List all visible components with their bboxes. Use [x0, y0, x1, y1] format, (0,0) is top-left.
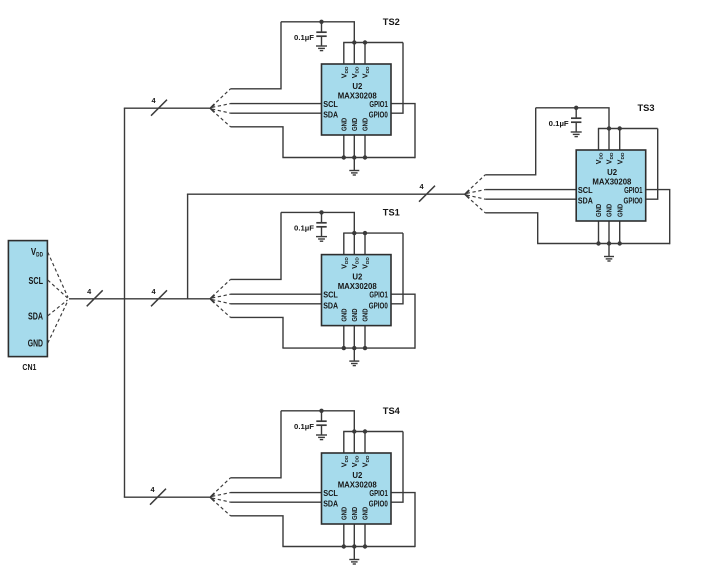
- pin label SDA (TS4): [323, 500, 338, 509]
- wire bus branch to TS2: [124, 107, 210, 109]
- svg-text:SDA: SDA: [28, 311, 43, 322]
- pin label VDD 2 (TS2): [350, 66, 361, 78]
- pin label VDD 3 (TS2): [361, 66, 372, 78]
- svg-text:0.1µF: 0.1µF: [294, 422, 314, 431]
- wire TS3 VDD pin 2: [608, 129, 610, 151]
- wire TS1 GND pin 3: [364, 326, 366, 349]
- svg-text:0.1µF: 0.1µF: [294, 224, 314, 233]
- wire TS3 GPIO1 to GND rail: [646, 190, 670, 245]
- svg-text:MAX30208: MAX30208: [592, 177, 631, 187]
- wire TS2 VDD rail: [343, 42, 403, 44]
- ground (TS1): [349, 348, 359, 366]
- wire TS3 VDD pin 1: [598, 129, 600, 151]
- dashed fan wire TS3 VDD: [467, 175, 486, 192]
- junction dot TS3 GND rail pin 2: [607, 241, 611, 245]
- dashed fan wire CN1 VDD: [48, 252, 68, 297]
- sensor designator label TS4: [383, 406, 401, 417]
- pin label GPIO0 (TS3): [624, 197, 643, 206]
- svg-text:0.1µF: 0.1µF: [549, 119, 569, 128]
- dashed fan wire TS3 SDA: [467, 195, 486, 199]
- junction dot TS1 GND rail pin 1: [342, 346, 346, 350]
- svg-text:GND: GND: [350, 506, 359, 520]
- pin label GPIO0 (TS2): [369, 111, 388, 120]
- wire bus branch to TS3: [187, 193, 465, 195]
- node TS4 bus fan-out point: [210, 493, 214, 501]
- wire TS4 VDD pin 1: [343, 432, 345, 454]
- wire TS3 VDD pin 3: [619, 129, 621, 151]
- sensor designator label TS2: [383, 17, 400, 28]
- ground (capacitor TS1): [316, 237, 327, 242]
- wire TS3 GND pin 1: [598, 221, 600, 244]
- junction dot TS2 GND rail pin 3: [363, 155, 367, 159]
- wire TS4 GND pin 3: [364, 524, 366, 547]
- svg-text:GND: GND: [28, 338, 43, 349]
- wire TS2 GND feed: [231, 127, 284, 158]
- wire bus branch to TS4: [124, 496, 210, 498]
- svg-text:CN1: CN1: [22, 362, 36, 372]
- sensor designator label TS1: [383, 208, 401, 219]
- pin label SDA (CN1): [28, 311, 43, 322]
- wire TS2 VDD pin 3: [364, 43, 366, 65]
- capacitor 0.1uF (TS3): [571, 108, 581, 132]
- wire TS3 VDD feed: [485, 108, 536, 175]
- wire TS2 GND pin 1: [343, 135, 345, 158]
- svg-text:GPIO0: GPIO0: [369, 301, 388, 310]
- bus width label 4 (TS3 branch): [419, 182, 424, 191]
- wire TS4 SDA: [231, 501, 322, 503]
- svg-text:TS3: TS3: [638, 103, 655, 114]
- wire TS3 SDA: [485, 198, 576, 200]
- svg-text:SDA: SDA: [323, 500, 338, 509]
- svg-text:GND: GND: [340, 308, 349, 322]
- bus-width slash TS2 branch: [151, 100, 167, 116]
- dashed fan wire CN1 GND: [48, 301, 68, 344]
- svg-text:GPIO0: GPIO0: [369, 111, 388, 120]
- capacitor 0.1uF (TS4): [316, 411, 326, 435]
- node TS3 bus fan-out point: [465, 190, 469, 198]
- wire TS4 VDD to GPIO0: [391, 432, 403, 503]
- pin label VDD 2 (TS4): [350, 455, 361, 467]
- bus width label 4 (TS4 branch): [150, 485, 155, 494]
- svg-text:GPIO1: GPIO1: [369, 100, 388, 109]
- dashed fan wire CN1 SDA: [48, 300, 68, 316]
- pin label SCL (TS1): [323, 291, 338, 300]
- wire TS3 GND feed: [485, 213, 538, 244]
- pin label GND 2 (TS2): [350, 117, 359, 131]
- wire TS4 GND feed: [231, 516, 284, 547]
- dashed fan wire TS1 VDD: [212, 279, 231, 296]
- junction dot TS3 VDD rail pin 2: [607, 126, 611, 130]
- svg-text:GND: GND: [594, 203, 603, 217]
- svg-text:4: 4: [87, 287, 92, 296]
- junction dot TS3 GND rail pin 1: [596, 241, 600, 245]
- junction dot TS1 VDD rail pin 2: [352, 231, 356, 235]
- pin label GND 2 (TS4): [350, 506, 359, 520]
- dashed fan wire TS2 SCL: [212, 104, 231, 108]
- junction dot TS4 GND rail pin 1: [342, 544, 346, 548]
- pin label VDD 1 (TS4): [339, 455, 350, 467]
- junction dot TS2 GND rail pin 2: [352, 155, 356, 159]
- dashed fan wire CN1 SCL: [48, 280, 68, 298]
- junction dot TS4 VDD rail pin 3: [363, 429, 367, 433]
- wire TS1 VDD rail: [343, 232, 403, 234]
- svg-text:GND: GND: [361, 506, 370, 520]
- connector CN1: [8, 241, 47, 357]
- sensor designator label TS3: [638, 103, 655, 114]
- wire TS2 GND pin 3: [364, 135, 366, 158]
- svg-text:4: 4: [151, 287, 156, 296]
- pin label VDD 1 (TS2): [339, 66, 350, 78]
- ground (capacitor TS3): [571, 132, 582, 137]
- svg-text:GND: GND: [361, 308, 370, 322]
- wire TS2 SCL: [231, 103, 322, 105]
- wire TS2 VDD pin 2: [353, 43, 355, 65]
- wire vertical bus TS2 to TS4: [124, 108, 126, 497]
- ground (capacitor TS4): [316, 435, 327, 440]
- refdes label U2 (TS2): [352, 81, 362, 91]
- wire TS1 GND feed: [231, 317, 284, 348]
- wire TS4 GPIO1 to GND rail: [391, 493, 415, 547]
- wire TS2 GPIO1 to GND rail: [391, 104, 415, 159]
- svg-text:SCL: SCL: [29, 276, 44, 287]
- wire TS1 VDD to GPIO0: [391, 233, 403, 304]
- wire TS3 GND pin 3: [619, 221, 621, 244]
- part label MAX30208 (TS4): [338, 480, 377, 490]
- wire TS4 GND pin 1: [343, 524, 345, 547]
- junction dot TS4 GND rail pin 2: [352, 544, 356, 548]
- pin label GND 2 (TS3): [605, 203, 614, 217]
- dashed fan wire TS4 VDD: [212, 478, 231, 495]
- wire TS3 SCL: [485, 189, 576, 191]
- pin label GPIO1 (TS3): [624, 186, 643, 195]
- svg-text:MAX30208: MAX30208: [338, 281, 377, 291]
- dashed fan wire TS4 GND: [212, 499, 231, 516]
- connector designator label CN1: [22, 362, 36, 372]
- node TS2 bus fan-out point: [210, 104, 214, 112]
- junction dot TS1 VDD rail pin 3: [363, 231, 367, 235]
- pin label GND 1 (TS2): [340, 117, 349, 131]
- pin label GPIO1 (TS4): [369, 489, 388, 498]
- svg-text:GND: GND: [340, 117, 349, 131]
- refdes label U2 (TS4): [352, 470, 362, 480]
- ground (TS4): [349, 547, 359, 565]
- capacitor 0.1uF (TS2): [316, 22, 326, 46]
- bus width label 4 (CN1 bus): [87, 287, 92, 296]
- svg-text:4: 4: [151, 96, 156, 105]
- wire TS1 GND pin 2: [353, 326, 355, 349]
- wire TS2 GND rail: [282, 157, 415, 159]
- svg-text:SCL: SCL: [578, 186, 593, 195]
- wire TS2 VDD to GPIO0: [391, 43, 403, 114]
- wire TS1 VDD cap rail: [281, 212, 354, 233]
- svg-text:GND: GND: [615, 203, 624, 217]
- junction dot TS4 GND rail pin 3: [363, 544, 367, 548]
- junction dot TS2 VDD rail pin 3: [363, 40, 367, 44]
- wire TS4 SCL: [231, 492, 322, 494]
- svg-text:GND: GND: [340, 506, 349, 520]
- pin label GND 3 (TS3): [615, 203, 624, 217]
- capacitor value label 0.1uF (TS4): [294, 422, 314, 431]
- pin label GPIO1 (TS1): [369, 291, 388, 300]
- svg-text:0.1µF: 0.1µF: [294, 33, 314, 42]
- node TS1 bus fan-out point: [210, 295, 214, 303]
- pin label VDD 1 (TS1): [339, 257, 350, 269]
- wire TS1 VDD pin 3: [364, 233, 366, 255]
- dashed fan wire TS1 SDA: [212, 300, 231, 304]
- svg-text:SDA: SDA: [323, 301, 338, 310]
- wire TS2 SDA: [231, 112, 322, 114]
- wire TS4 VDD cap rail: [281, 411, 354, 432]
- bus-width slash TS4 branch: [150, 489, 166, 505]
- wire TS4 GND rail: [282, 546, 415, 548]
- svg-text:TS2: TS2: [383, 17, 400, 28]
- dashed fan wire TS3 GND: [467, 196, 486, 213]
- junction dot TS2 VDD rail pin 2: [352, 40, 356, 44]
- junction dot TS2 cap to VDD rail: [319, 20, 323, 24]
- wire TS1 VDD pin 2: [353, 233, 355, 255]
- svg-text:TS4: TS4: [383, 406, 401, 417]
- dashed fan wire TS4 SCL: [212, 493, 231, 497]
- pin label SCL (CN1): [29, 276, 44, 287]
- ground (TS3): [604, 244, 614, 262]
- wire TS1 GND rail: [282, 347, 415, 349]
- dashed fan wire TS2 GND: [212, 110, 231, 127]
- pin label VDD 2 (TS3): [605, 152, 616, 164]
- svg-text:SDA: SDA: [323, 111, 338, 120]
- bus-width slash TS3 branch: [419, 186, 435, 202]
- wire TS4 VDD pin 3: [364, 432, 366, 454]
- pin label SCL (TS4): [323, 489, 338, 498]
- svg-text:GPIO1: GPIO1: [624, 186, 643, 195]
- svg-text:MAX30208: MAX30208: [338, 91, 377, 101]
- junction dot TS2 GND rail pin 1: [342, 155, 346, 159]
- pin label GND (CN1): [28, 338, 43, 349]
- capacitor 0.1uF (TS1): [316, 212, 326, 236]
- bus-width slash TS1 branch: [151, 290, 167, 306]
- capacitor value label 0.1uF (TS2): [294, 33, 314, 42]
- svg-text:GND: GND: [350, 308, 359, 322]
- svg-text:TS1: TS1: [383, 208, 401, 219]
- svg-text:SCL: SCL: [323, 100, 338, 109]
- part label MAX30208 (TS1): [338, 281, 377, 291]
- ground (TS2): [349, 158, 359, 176]
- junction dot TS3 cap to VDD rail: [574, 106, 578, 110]
- wire TS1 GND pin 1: [343, 326, 345, 349]
- part label MAX30208 (TS3): [592, 177, 631, 187]
- svg-text:SCL: SCL: [323, 489, 338, 498]
- bus width label 4 (TS2 branch): [151, 96, 156, 105]
- ground (capacitor TS2): [316, 46, 327, 51]
- wire TS4 VDD feed: [231, 411, 282, 478]
- pin label GND 1 (TS3): [594, 203, 603, 217]
- refdes label U2 (TS3): [607, 167, 617, 177]
- wire TS4 VDD pin 2: [353, 432, 355, 454]
- pin label SDA (TS3): [578, 197, 593, 206]
- junction dot TS4 VDD rail pin 2: [352, 429, 356, 433]
- svg-text:MAX30208: MAX30208: [338, 480, 377, 490]
- wire TS1 SDA: [231, 303, 322, 305]
- svg-text:GND: GND: [350, 117, 359, 131]
- bus width label 4 (TS1 branch): [151, 287, 156, 296]
- pin label VDD 3 (TS3): [615, 152, 626, 164]
- dashed fan wire TS1 SCL: [212, 294, 231, 298]
- pin label GND 1 (TS4): [340, 506, 349, 520]
- capacitor value label 0.1uF (TS1): [294, 224, 314, 233]
- wire TS2 VDD feed: [231, 22, 282, 89]
- wire main I2C bus CN1 to TS1 fan: [69, 298, 210, 300]
- wire TS1 VDD pin 1: [343, 233, 345, 255]
- svg-text:GND: GND: [605, 203, 614, 217]
- pin label VDD 2 (TS1): [350, 257, 361, 269]
- pin label GPIO0 (TS1): [369, 301, 388, 310]
- part label MAX30208 (TS2): [338, 91, 377, 101]
- wire TS2 GND pin 2: [353, 135, 355, 158]
- pin label VDD 3 (TS1): [361, 257, 372, 269]
- dashed fan wire TS4 SDA: [212, 498, 231, 502]
- pin label GPIO0 (TS4): [369, 500, 388, 509]
- refdes label U2 (TS1): [352, 272, 362, 282]
- capacitor value label 0.1uF (TS3): [549, 119, 569, 128]
- wire TS1 VDD feed: [231, 212, 282, 279]
- junction dot TS3 VDD rail pin 3: [618, 126, 622, 130]
- junction dot TS1 GND rail pin 3: [363, 346, 367, 350]
- svg-text:GND: GND: [361, 117, 370, 131]
- wire TS3 VDD rail: [598, 128, 658, 130]
- svg-text:SDA: SDA: [578, 197, 593, 206]
- junction dot TS4 cap to VDD rail: [319, 409, 323, 413]
- pin label VDD (CN1): [31, 246, 43, 259]
- pin label GPIO1 (TS2): [369, 100, 388, 109]
- bus-width slash CN1 bus: [87, 290, 103, 306]
- wire TS3 GND pin 2: [608, 221, 610, 244]
- svg-text:4: 4: [150, 485, 155, 494]
- pin label VDD 3 (TS4): [361, 455, 372, 467]
- pin label GND 3 (TS1): [361, 308, 370, 322]
- pin label VDD 1 (TS3): [594, 152, 605, 164]
- junction dot TS1 cap to VDD rail: [319, 210, 323, 214]
- pin label SCL (TS3): [578, 186, 593, 195]
- IC U2 MAX30208 (TS2): [322, 64, 392, 135]
- dashed fan wire TS2 SDA: [212, 109, 231, 113]
- wire TS1 SCL: [231, 293, 322, 295]
- svg-text:SCL: SCL: [323, 291, 338, 300]
- wire TS1 GPIO1 to GND rail: [391, 294, 415, 349]
- wire TS3 GND rail: [537, 243, 670, 245]
- svg-text:GPIO1: GPIO1: [369, 489, 388, 498]
- svg-text:GPIO0: GPIO0: [369, 500, 388, 509]
- IC U2 MAX30208 (TS4): [322, 453, 392, 524]
- pin label GND 1 (TS1): [340, 308, 349, 322]
- IC U2 MAX30208 (TS3): [576, 150, 646, 221]
- wire TS4 VDD rail: [343, 431, 403, 433]
- dashed fan wire TS1 GND: [212, 301, 231, 318]
- pin label GND 3 (TS4): [361, 506, 370, 520]
- pin label SDA (TS1): [323, 301, 338, 310]
- svg-text:4: 4: [419, 182, 424, 191]
- dashed fan wire TS3 SCL: [467, 190, 486, 194]
- svg-text:GPIO0: GPIO0: [624, 197, 643, 206]
- junction dot TS3 GND rail pin 3: [618, 241, 622, 245]
- IC U2 MAX30208 (TS1): [322, 255, 392, 326]
- svg-text:GPIO1: GPIO1: [369, 291, 388, 300]
- pin label SDA (TS2): [323, 111, 338, 120]
- wire TS2 VDD pin 1: [343, 43, 345, 65]
- junction dot TS1 GND rail pin 2: [352, 346, 356, 350]
- wire TS2 VDD cap rail: [281, 22, 354, 43]
- pin label GND 3 (TS2): [361, 117, 370, 131]
- pin label SCL (TS2): [323, 100, 338, 109]
- dashed fan wire TS2 VDD: [212, 89, 231, 106]
- pin label GND 2 (TS1): [350, 308, 359, 322]
- wire TS3 VDD to GPIO0: [646, 129, 658, 200]
- wire TS3 VDD cap rail: [536, 108, 609, 129]
- wire bus branch riser to TS3: [187, 194, 189, 299]
- wire TS4 GND pin 2: [353, 524, 355, 547]
